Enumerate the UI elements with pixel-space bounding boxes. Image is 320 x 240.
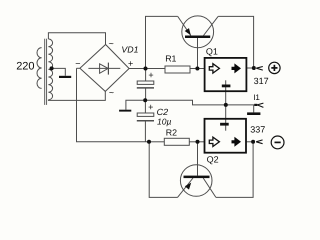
resistor R2	[164, 138, 189, 145]
connector fork minus output	[256, 140, 262, 144]
junction node A	[144, 67, 148, 71]
transistor Q2 base bar	[184, 176, 210, 179]
wire secondary top to bridge AC1	[48, 33, 105, 45]
wire U2 adj pin	[225, 105, 227, 131]
wire adj rail to connector I1	[226, 104, 257, 106]
capacitor C1 bottom lead	[145, 89, 147, 101]
junction dot center tap	[50, 66, 54, 70]
capacitor C1 top lead	[145, 69, 147, 82]
U1 adj tab	[222, 85, 231, 88]
wire bridge minus to bottom rail	[77, 68, 149, 141]
wire Q2 base to node C	[197, 142, 199, 176]
wire node A to R1	[146, 68, 166, 70]
U1 output solid arrow	[232, 63, 242, 73]
terminal minus	[271, 136, 284, 149]
wire U1 output to plus node	[246, 67, 253, 69]
junction mid node	[143, 98, 147, 102]
bridge rectifier VD1 diamond	[80, 45, 129, 92]
U1 input hollow arrow	[209, 64, 219, 73]
U2 input hollow arrow	[209, 137, 219, 146]
svg-text:−: −	[75, 58, 80, 68]
connector fork I1	[254, 103, 263, 107]
regulator U1 block (317)	[205, 58, 247, 91]
wire mid node to ground	[126, 100, 145, 109]
wire mid node to adj rail	[145, 100, 226, 105]
resistor R1	[165, 66, 190, 73]
wire minus node to bottom rail	[216, 142, 253, 198]
transistor Q1 emitter lead	[178, 16, 191, 35]
svg-text:337: 337	[250, 125, 265, 135]
junction adj node	[224, 103, 228, 107]
svg-text:Q2: Q2	[207, 155, 219, 165]
capacitor C2	[137, 113, 154, 121]
transistor Q1 collector lead	[204, 16, 219, 35]
transistor Q1 emitter arrow	[185, 28, 191, 35]
wire bottom row node to R2	[149, 141, 164, 143]
svg-text:Q1: Q1	[206, 47, 218, 57]
capacitor C2 top lead	[144, 100, 146, 113]
diode inside VD1	[88, 63, 120, 75]
wire bridge minus stub	[77, 67, 80, 69]
wire top rail left	[146, 16, 178, 68]
transistor Q1 circle	[182, 16, 214, 48]
svg-text:+: +	[148, 70, 153, 80]
transistor Q2 emitter arrow	[185, 183, 191, 190]
junction node B	[195, 67, 199, 71]
transistor Q2 emitter lead	[178, 178, 194, 197]
U2 output solid arrow	[232, 137, 242, 147]
svg-text:+: +	[128, 58, 133, 68]
svg-text:+: +	[148, 102, 153, 112]
wire R2 to regulator U2 input	[189, 141, 204, 143]
wire Q1 base to node B	[197, 38, 199, 69]
wire top rail right	[218, 16, 254, 68]
wire U1 adj pin	[225, 80, 227, 105]
terminal plus	[269, 62, 280, 73]
ground bar transformer	[59, 76, 71, 78]
wire Q2 emitter to bottom left rail	[149, 142, 177, 198]
svg-text:VD1: VD1	[121, 44, 138, 54]
wire secondary bottom to bridge AC2	[48, 91, 105, 100]
regulator U2 block (337)	[205, 119, 247, 153]
svg-text:~: ~	[109, 87, 114, 97]
svg-text:317: 317	[254, 76, 269, 86]
capacitor C1	[137, 81, 154, 88]
transformer T1 primary winding	[37, 48, 42, 89]
svg-text:R2: R2	[166, 128, 177, 138]
svg-text:R1: R1	[165, 54, 176, 64]
svg-text:~: ~	[109, 38, 114, 48]
U2 adj tab	[220, 123, 229, 126]
wire U2 output to minus node	[246, 141, 253, 143]
junction plus node	[252, 66, 256, 70]
capacitor C2 bottom lead	[144, 121, 146, 141]
transistor Q2 circle	[180, 165, 212, 197]
junction bottom row node	[147, 140, 151, 144]
svg-text:C2: C2	[157, 107, 169, 117]
transformer T1 core	[45, 39, 47, 105]
svg-text:10µ: 10µ	[157, 117, 171, 127]
svg-text:220: 220	[16, 61, 34, 73]
wire R1 to regulator U1 input	[190, 68, 205, 70]
ground bar adj rail	[247, 112, 260, 115]
svg-text:I1: I1	[253, 93, 260, 102]
transistor Q1 base bar	[185, 36, 210, 39]
transistor Q2 collector lead	[203, 178, 216, 197]
ground bar mid rail	[119, 110, 131, 112]
wire adj rail ground stub	[253, 105, 255, 113]
transformer T1 secondary winding	[48, 39, 52, 100]
junction minus node	[251, 140, 255, 144]
connector fork plus output	[256, 67, 263, 71]
wire bridge plus to node A	[129, 68, 145, 70]
wire center tap to ground	[52, 68, 66, 75]
junction node C	[196, 140, 200, 144]
